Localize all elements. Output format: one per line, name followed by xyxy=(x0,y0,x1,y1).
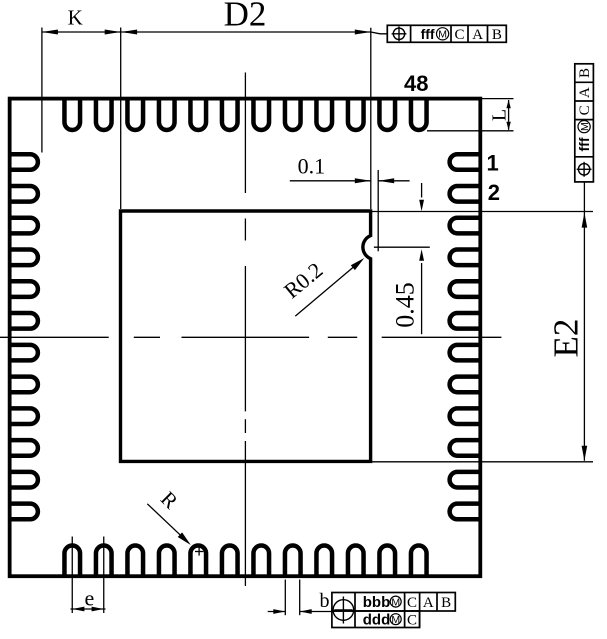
svg-text:e: e xyxy=(85,585,95,610)
svg-text:fff: fff xyxy=(576,137,592,151)
svg-text:C: C xyxy=(454,27,464,43)
svg-text:M: M xyxy=(391,596,400,608)
svg-text:fff: fff xyxy=(421,26,435,42)
svg-text:A: A xyxy=(577,87,593,98)
svg-text:K: K xyxy=(68,5,83,29)
svg-text:ddd: ddd xyxy=(363,612,391,629)
svg-text:A: A xyxy=(472,27,483,43)
svg-text:B: B xyxy=(577,68,593,78)
svg-text:A: A xyxy=(423,595,434,611)
svg-text:48: 48 xyxy=(404,71,428,96)
svg-text:E2: E2 xyxy=(547,319,586,358)
svg-text:bbb: bbb xyxy=(363,594,391,611)
svg-text:M: M xyxy=(391,614,400,626)
svg-text:B: B xyxy=(441,595,451,611)
svg-text:0.45: 0.45 xyxy=(391,282,420,328)
svg-text:C: C xyxy=(577,105,593,115)
svg-text:M: M xyxy=(579,122,591,131)
svg-text:L: L xyxy=(489,109,511,121)
svg-text:M: M xyxy=(438,29,447,41)
svg-text:1: 1 xyxy=(486,150,498,175)
svg-text:b: b xyxy=(320,590,330,612)
svg-text:C: C xyxy=(407,595,417,611)
svg-text:0.1: 0.1 xyxy=(298,153,326,178)
svg-text:2: 2 xyxy=(488,180,500,205)
svg-text:D2: D2 xyxy=(224,0,267,34)
svg-text:B: B xyxy=(492,27,502,43)
svg-text:C: C xyxy=(407,613,417,629)
